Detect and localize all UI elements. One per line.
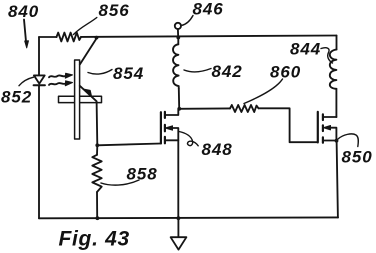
pointer arrow for 840	[24, 20, 26, 43]
junction dot node emitter	[95, 143, 99, 147]
svg-text:840: 840	[8, 2, 39, 21]
mosfet Q850 channel segment bottom	[322, 137, 324, 142]
inductor L842	[173, 44, 179, 88]
resistor R858	[92, 155, 101, 192]
svg-text:860: 860	[270, 63, 301, 82]
mosfet Q850 body stub	[327, 128, 336, 141]
svg-text:854: 854	[113, 64, 144, 83]
leader line 852	[19, 77, 34, 86]
mosfet Q850 gate bar	[317, 112, 319, 142]
svg-text:858: 858	[127, 165, 158, 184]
leader line 856	[74, 18, 97, 35]
wire top left segment	[39, 36, 57, 38]
wire top middle-right	[81, 36, 337, 37]
junction dot node B (top left)	[95, 36, 99, 40]
wire bottom	[39, 216, 338, 219]
mosfet Q848 body arrow	[165, 126, 172, 130]
ground stem	[177, 218, 179, 237]
resistor R860	[230, 105, 259, 112]
terminal node 846 circle	[175, 23, 181, 29]
leader line 854	[88, 70, 112, 75]
light arrow 1 head	[65, 73, 72, 78]
svg-text:Fig. 43: Fig. 43	[59, 228, 130, 251]
leader line 844	[321, 48, 333, 63]
light arrow 2	[49, 83, 66, 85]
wire left side	[38, 37, 40, 75]
terminal 846 stem	[177, 29, 179, 37]
svg-text:844: 844	[290, 40, 321, 59]
mosfet Q848 source	[165, 140, 178, 218]
svg-text:852: 852	[1, 88, 32, 107]
leader line 858	[101, 180, 139, 185]
wire left lower	[38, 85, 40, 218]
mosfet Q850 channel segment mid	[322, 125, 324, 131]
svg-text:842: 842	[212, 62, 243, 81]
mosfet Q848 channel segment mid	[164, 125, 166, 131]
ground symbol	[171, 237, 187, 249]
mosfet Q850 channel segment top	[322, 114, 324, 120]
wire node842 to R860	[179, 107, 230, 109]
junction dot node drain848	[177, 107, 181, 111]
light arrow 2 head	[65, 81, 72, 86]
junction dot node 846	[176, 36, 180, 40]
wire right lower (Q850 source to bottom)	[337, 141, 338, 218]
mosfet Q848 drain	[165, 109, 178, 115]
svg-text:856: 856	[99, 1, 130, 20]
diode D852	[34, 75, 45, 83]
wire R860 to Q850 gate	[259, 108, 318, 142]
mosfet Q850 source	[323, 140, 337, 142]
resistor R858 top lead	[96, 145, 98, 154]
mosfet Q850 drain	[323, 116, 337, 118]
leader line 850	[338, 134, 358, 147]
svg-text:850: 850	[342, 148, 373, 167]
resistor R858 bottom lead	[96, 192, 98, 218]
leader line 842	[184, 69, 211, 72]
inductor L844	[330, 50, 337, 89]
diode D852 cathode bar	[34, 84, 45, 86]
transistor Q854 emitter arrow	[85, 89, 92, 96]
junction dot node source850	[335, 139, 339, 143]
mosfet Q848 channel segment top	[164, 112, 166, 118]
leader line 846	[181, 16, 193, 26]
mosfet Q850 body arrow	[323, 126, 330, 130]
transistor Q854 emitter	[80, 86, 98, 145]
mosfet Q848 body stub	[169, 128, 178, 140]
transistor Q854 horizontal bar	[59, 96, 102, 102]
transistor Q854 collector	[80, 39, 97, 65]
wire right upper	[336, 36, 338, 50]
inductor L842 bottom lead	[178, 89, 180, 109]
wire right mid (L844 to Q850 drain)	[335, 89, 337, 117]
junction dot node ground	[177, 216, 181, 220]
mosfet Q848 gate lead	[97, 144, 161, 146]
inductor L842 top lead	[177, 38, 179, 45]
leader line 848	[179, 132, 198, 146]
leader line 860	[244, 79, 283, 104]
svg-text:846: 846	[193, 0, 224, 19]
light arrow 1	[49, 75, 66, 77]
junction dot node R858 bottom	[96, 216, 100, 220]
mosfet Q848 gate bar	[160, 112, 162, 143]
svg-text:848: 848	[202, 140, 233, 159]
resistor R856	[57, 33, 82, 42]
transistor Q854 base bar	[75, 60, 80, 139]
mosfet Q848 channel segment bottom	[164, 137, 166, 143]
